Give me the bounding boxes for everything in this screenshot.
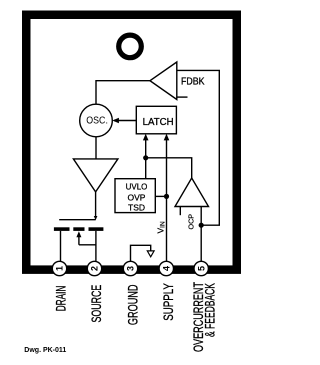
wire ground pin 3 to ground symbol	[131, 245, 151, 263]
node junction dot OCP/UVLO	[143, 155, 148, 160]
svg-text:GROUND: GROUND	[126, 284, 141, 325]
pin 4 terminal	[159, 261, 173, 275]
block UVLO OVP TSD	[115, 179, 155, 213]
latch block	[136, 106, 176, 134]
body arrow of MOSFET	[76, 231, 96, 245]
wire OSC bottom to driver	[95, 137, 97, 159]
wire UVLO box to supply line	[155, 195, 166, 197]
pin 1 terminal	[52, 261, 66, 275]
wire junction to OCP output	[146, 158, 192, 178]
svg-text:OSC.: OSC.	[86, 115, 108, 127]
wire FDBK upper input to right bus	[177, 70, 220, 225]
pin 2 terminal	[87, 261, 101, 275]
svg-text:DRAIN: DRAIN	[54, 286, 69, 312]
chip package outline	[26, 15, 237, 270]
svg-text:UVLO: UVLO	[126, 181, 148, 191]
svg-text:& FEEDBACK: & FEEDBACK	[202, 283, 217, 337]
node junction dot pin5/right bus	[199, 223, 204, 228]
thermal pad circle	[119, 35, 142, 58]
svg-text:2: 2	[90, 266, 100, 271]
svg-text:OVP: OVP	[128, 192, 146, 202]
wire UVLO/OCP to LATCH with arrow	[143, 134, 149, 179]
svg-text:3: 3	[126, 266, 136, 271]
op-amp OCP comparator	[175, 178, 209, 230]
wire source bar to pin 2	[95, 231, 97, 263]
svg-text:SUPPLY: SUPPLY	[161, 283, 176, 321]
svg-text:OCP: OCP	[186, 214, 195, 230]
transistor MOSFET gate bar 2	[73, 227, 84, 231]
wire OSC top to FDBK output	[96, 81, 150, 105]
driver amplifier triangle	[73, 159, 118, 192]
svg-text:SOURCE: SOURCE	[89, 285, 104, 323]
wire OCP input to pin 5	[200, 207, 202, 264]
svg-text:1: 1	[55, 266, 65, 271]
svg-text:FDBK: FDBK	[181, 75, 205, 87]
wire driver output to gate with arrow	[94, 192, 98, 220]
pin 5 terminal	[194, 261, 208, 275]
wire FDBK lower input stub	[177, 96, 188, 98]
ground symbol	[147, 251, 154, 257]
svg-text:LATCH: LATCH	[143, 116, 174, 128]
pin 3 terminal	[123, 261, 137, 275]
wire OCP reference stub	[179, 207, 181, 216]
oscillator OSC	[80, 104, 113, 137]
op-amp FDBK comparator	[150, 62, 205, 100]
wire supply line LATCH to pin 4 with arrow	[164, 134, 170, 263]
svg-text:5: 5	[196, 266, 206, 271]
wire LATCH to OSC with arrow	[112, 118, 136, 123]
svg-text:Dwg. PK-011: Dwg. PK-011	[24, 347, 66, 354]
node junction dot supply/UVLO	[164, 194, 169, 199]
transistor MOSFET gate bar 3	[89, 227, 104, 231]
wire drain bar to pin 1	[60, 231, 62, 263]
svg-text:TSD: TSD	[128, 203, 145, 213]
svg-text:4: 4	[162, 266, 172, 271]
transistor MOSFET gate bar 1	[54, 227, 70, 231]
wire gate line	[59, 219, 95, 221]
